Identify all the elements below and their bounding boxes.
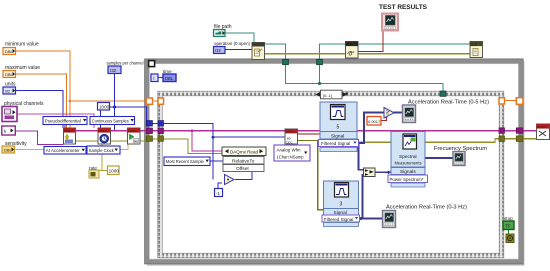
- wire error from filter1 to right tunnels: [359, 139, 500, 143]
- wire waveform read to filter 1: [298, 133, 321, 135]
- label Acceleration Real-Time (0-5 Hz): [408, 100, 489, 106]
- Write File VI: [346, 42, 359, 59]
- Close File VI: [470, 42, 483, 58]
- chart terminal Frequency Spectrum: [453, 152, 465, 166]
- wire maximum value: [16, 74, 67, 128]
- svg-text:DAQmx: DAQmx: [99, 129, 109, 133]
- svg-text:Sample Clock: Sample Clock: [89, 148, 115, 153]
- svg-text:1000: 1000: [109, 169, 120, 174]
- svg-text:operation (0:open): operation (0:open): [214, 41, 250, 46]
- svg-text:DAQmx: DAQmx: [286, 130, 296, 134]
- label units: [5, 82, 16, 88]
- tunnel orange event right: [499, 98, 505, 104]
- label stop: [504, 216, 513, 221]
- svg-text:Measurements: Measurements: [395, 160, 423, 165]
- chart terminal Acceleration Real-Time 0-3 Hz: [383, 211, 396, 228]
- wire 1000 junction down to DAQmx Start: [115, 107, 128, 131]
- wire comparison to chart 0-5Hz: [394, 112, 403, 114]
- svg-text:Spectral: Spectral: [399, 154, 417, 160]
- svg-text:DAQmx Read: DAQmx Read: [230, 149, 258, 154]
- loop condition terminal: [506, 234, 514, 243]
- terminal minimum value: [3, 48, 16, 55]
- svg-text:1Chan NSamp: 1Chan NSamp: [277, 154, 304, 159]
- TEST RESULTS chart terminal: [382, 14, 398, 31]
- terminal file path: [214, 30, 226, 37]
- svg-text:Signal: Signal: [331, 133, 344, 139]
- event selector label: [316, 90, 349, 99]
- wire error inside event to read node: [163, 139, 222, 154]
- svg-text:Continuous Samples: Continuous Samples: [92, 118, 130, 123]
- label sensitivity: [5, 141, 27, 147]
- wire file path to Open VI: [225, 33, 254, 43]
- svg-text:file path: file path: [214, 24, 232, 30]
- DAQmx Start Task VI: [128, 128, 141, 144]
- wire task inside event: [163, 130, 285, 132]
- svg-text:DDC: DDC: [286, 140, 293, 144]
- constant -1: [215, 189, 223, 197]
- wire task tunnel stubs: [152, 130, 158, 132]
- tunnel refnum on event border: [440, 91, 446, 96]
- svg-text:maximum value: maximum value: [5, 65, 40, 71]
- label time: [163, 69, 172, 74]
- terminal stop: [503, 221, 514, 230]
- svg-text:5: 5: [337, 125, 340, 131]
- Spectral Measurements express VI: [388, 132, 428, 188]
- wire 1000 down to DAQmx Timing: [100, 110, 102, 128]
- wire 1000 to loop tunnel: [110, 107, 147, 123]
- wire samples per channel down to 1000 junction: [114, 74, 116, 108]
- label physical channels: [4, 101, 44, 107]
- label TEST RESULTS: [379, 4, 428, 11]
- wire orange tunnel stubs: [153, 100, 159, 102]
- wire refnum branch tunnel B to Write VI: [319, 65, 321, 84]
- wire units: [16, 91, 64, 129]
- rate local: [89, 170, 99, 178]
- tunnel task event left: [158, 128, 164, 134]
- wire refnum Write VI to Close VI: [358, 43, 470, 45]
- label samples per channel: [107, 61, 144, 66]
- while loop corner label square: [149, 61, 155, 67]
- combo Sample Clock: [87, 146, 120, 154]
- svg-text:-1: -1: [216, 191, 221, 197]
- svg-text:T:80: T:80: [346, 42, 352, 46]
- tunnel task loop left: [146, 128, 152, 134]
- label file path: [214, 24, 232, 30]
- svg-text:DBL: DBL: [165, 76, 174, 81]
- svg-text:I32: I32: [110, 68, 117, 73]
- tunnel task event right: [499, 128, 505, 134]
- wire Pseudodifferential drop to create channel: [64, 124, 66, 128]
- merge signals node: [364, 168, 376, 177]
- tunnel orange loop right: [516, 98, 523, 105]
- terminal operation: [214, 47, 226, 54]
- terminal maximum value: [3, 71, 16, 78]
- terminal samples per channel: [108, 66, 121, 74]
- wire samples per channel inside event: [152, 122, 158, 124]
- svg-text:DBL: DBL: [5, 72, 14, 77]
- Filter express VI 1: [319, 102, 359, 152]
- event structure: [158, 91, 504, 258]
- wire error top chain: [265, 53, 471, 55]
- wire filtered signal 2 up to merge: [363, 175, 364, 219]
- svg-text:RelativeTo: RelativeTo: [232, 158, 255, 164]
- combo Continuous Samples: [90, 117, 135, 125]
- wire waveform down to filter 2: [298, 141, 324, 210]
- svg-text:Filtered Signal: Filtered Signal: [321, 141, 350, 146]
- svg-text:TF: TF: [505, 224, 511, 229]
- wire Most Recent Sample to RelativeTo: [210, 160, 223, 162]
- DAQmx Read property node title: [222, 147, 266, 156]
- wire refnum Open VI out into loop tunnel: [265, 44, 286, 59]
- wire physical channels: [17, 114, 94, 128]
- svg-text:Acceleration Real-Time (0-5 Hz: Acceleration Real-Time (0-5 Hz): [408, 100, 489, 106]
- svg-text:DAQmx: DAQmx: [537, 125, 547, 129]
- junction refnum: [318, 82, 321, 85]
- svg-text:Filtered Signal: Filtered Signal: [324, 217, 353, 222]
- DAQmx Read VI: [285, 129, 298, 144]
- svg-text:3: 3: [340, 202, 343, 208]
- svg-text:rate: rate: [89, 166, 97, 171]
- comparison node: [384, 108, 394, 119]
- label rate: [89, 166, 97, 171]
- terminal physical channels: [2, 107, 17, 122]
- while loop: [145, 59, 525, 265]
- svg-text:Offset: Offset: [236, 166, 249, 172]
- combo Analog Wfm 1Chan NSamp: [274, 145, 310, 161]
- wire 0.0017 to comparison: [381, 117, 387, 121]
- wire error tunnel stubs: [152, 138, 158, 140]
- constant 0.0017: [367, 117, 381, 126]
- tunnel orange loop left: [146, 98, 152, 104]
- wire red TEST RESULTS to Write VI: [358, 31, 383, 52]
- wire stop to condition terminal: [508, 230, 510, 235]
- tunnel orange event left: [158, 98, 164, 104]
- wire filtered signal 1 down to merge: [359, 143, 364, 170]
- svg-text:h: h: [4, 129, 7, 134]
- DAQmx Timing VI: [98, 128, 111, 144]
- tunnel error loop right: [516, 136, 523, 142]
- label maximum value: [5, 65, 40, 71]
- terminal units: [3, 87, 16, 94]
- tunnel blue loop left: [146, 121, 152, 127]
- iteration terminal i: [151, 74, 158, 82]
- tunnel error event left: [158, 136, 164, 142]
- svg-text:stop: stop: [504, 216, 513, 221]
- terminal sensitivity: [2, 146, 15, 153]
- svg-text:minimum value: minimum value: [5, 42, 39, 48]
- svg-text:units: units: [5, 82, 16, 88]
- wire task name constant to AI Accelerometer: [16, 131, 64, 145]
- svg-text:physical channels: physical channels: [4, 101, 44, 107]
- combo Most Recent Sample: [164, 157, 210, 166]
- Filter express VI 2: [322, 181, 360, 227]
- wire filtered signal 1 up to comparison: [359, 113, 385, 143]
- svg-text:Frecuency Spectrum: Frecuency Spectrum: [434, 146, 487, 152]
- svg-text:DAQmx: DAQmx: [128, 129, 138, 133]
- wire -1 to conversion: [218, 183, 222, 189]
- label Acceleration Real-Time (0-3 Hz): [386, 205, 467, 211]
- svg-text:Pseudodifferential: Pseudodifferential: [45, 118, 81, 123]
- wire refnum inside loop to event tunnel: [286, 65, 444, 92]
- wire error chain VI1-VI2-VI3: [76, 140, 99, 142]
- svg-text:[0..1]: [0..1]: [323, 93, 332, 98]
- DAQmx Create Virtual Channel VI: [64, 128, 76, 144]
- wire task chain VI1-VI2-VI3: [76, 130, 99, 132]
- tunnel refnum B on loop border: [317, 59, 323, 64]
- svg-text:DBL: DBL: [4, 148, 13, 153]
- DAQmx Clear Task VI: [537, 124, 550, 140]
- wire merge to Signals input: [375, 171, 391, 173]
- wire minimum value: [16, 51, 147, 101]
- constant 1000 samples: [98, 103, 110, 111]
- terminal time: [163, 74, 176, 82]
- tunnel task loop right: [516, 128, 523, 134]
- svg-text:Most Recent Sample: Most Recent Sample: [166, 159, 204, 164]
- tunnel blue event left: [158, 121, 164, 127]
- svg-text:0.0017: 0.0017: [368, 119, 381, 124]
- task name constant: [2, 126, 16, 135]
- label minimum value: [5, 42, 39, 48]
- svg-text:sensitivity: sensitivity: [5, 141, 27, 147]
- svg-text:Analog Wfm: Analog Wfm: [277, 148, 301, 153]
- svg-text:time: time: [163, 69, 172, 74]
- svg-text:samples per channel: samples per channel: [107, 61, 144, 66]
- svg-text:Go: Go: [134, 139, 138, 143]
- conversion node: [225, 175, 235, 185]
- wire conversion to Offset: [235, 172, 252, 180]
- svg-text:Signals: Signals: [400, 169, 416, 175]
- wire filtered signal 2 to chart 0-3Hz: [360, 218, 383, 220]
- svg-text:AI Accelerometer: AI Accelerometer: [46, 148, 80, 153]
- combo Pseudodifferential: [43, 117, 87, 125]
- svg-text:i: i: [153, 76, 154, 82]
- wire i to time: [158, 77, 163, 79]
- svg-text:I32: I32: [5, 89, 11, 94]
- tunnel error event right: [499, 136, 505, 142]
- svg-text:CLS: CLS: [471, 42, 477, 46]
- svg-text:TEST RESULTS: TEST RESULTS: [379, 4, 428, 11]
- svg-text:Acceleration Real-Time (0-3 Hz: Acceleration Real-Time (0-3 Hz): [386, 205, 467, 211]
- Open/Create/Replace File VI: [252, 43, 265, 60]
- tunnel refnum A on loop border: [283, 59, 289, 64]
- svg-text:I32: I32: [215, 48, 221, 53]
- wire rate 1000: [99, 170, 108, 172]
- svg-text:Power Spectrum*: Power Spectrum*: [390, 177, 424, 182]
- svg-text:DAQmx: DAQmx: [64, 129, 74, 133]
- property Offset: [223, 165, 264, 173]
- svg-text:1000: 1000: [99, 105, 110, 110]
- constant rate 1000: [108, 166, 120, 175]
- label Frecuency Spectrum: [434, 146, 487, 152]
- svg-text:DBL: DBL: [5, 49, 14, 54]
- label operation: [214, 41, 250, 46]
- tunnel error loop left: [146, 136, 152, 142]
- wire operation to Open VI: [225, 49, 252, 51]
- wire spectral to Frequency Spectrum chart: [425, 157, 453, 159]
- combo AI Accelerometer: [44, 147, 86, 155]
- property RelativeTo: [223, 157, 264, 165]
- wire sensitivity: [16, 144, 129, 150]
- chart terminal Acceleration Real-Time 0-5 Hz: [403, 105, 416, 123]
